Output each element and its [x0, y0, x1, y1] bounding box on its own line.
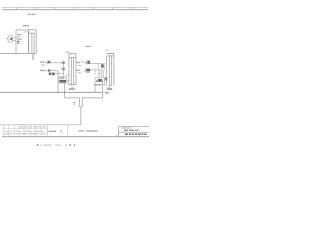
K1 glyph 2: [96, 80, 98, 82]
sheet border top line 1: [2, 6, 148, 8]
table header text cells: [19, 126, 46, 129]
U1 dark mark: [17, 41, 19, 43]
table faint line 2: [2, 130, 48, 132]
label RT1 value1: [74, 104, 76, 105]
caution cell left border: [47, 125, 49, 137]
CN2 pin text: [71, 86, 74, 89]
arrow row A: [45, 62, 47, 63]
transistor Q3 specks: [95, 71, 99, 75]
table text row 3: [5, 133, 46, 134]
CN2 label top: [66, 52, 70, 53]
CN1 pin stub 2: [33, 54, 35, 60]
label DL.PD: [23, 25, 29, 26]
wire Q4 leg 2: [100, 70, 102, 77]
wire Q2 to CN2: [67, 79, 69, 81]
footer registration mark left: [37, 144, 39, 146]
connector CN3: [107, 54, 114, 86]
label right col row1b: [82, 61, 84, 62]
sheet border top line 2: [2, 9, 148, 11]
wire Q4 leg 1: [98, 70, 100, 77]
wire vertical V2: [57, 71, 59, 93]
border tick marks: [17, 7, 132, 9]
wire X1 to U1 lower: [13, 39, 17, 41]
label row A: [40, 61, 44, 62]
title block top line: [119, 126, 149, 128]
Q2 dark body: [60, 80, 66, 83]
wire center drop: [80, 108, 82, 125]
CN3 label top: [105, 50, 109, 51]
wire D1 to bead column: [51, 62, 64, 64]
ground bus wire: [0, 91, 103, 93]
caution divider mark: [60, 130, 61, 132]
label row C: [40, 70, 44, 71]
regulator Q2 box: [59, 77, 67, 83]
wire Q1 to bead column: [55, 73, 64, 75]
footer digit 4: [66, 144, 67, 145]
label right col row4: [78, 72, 81, 73]
inductor L2: [62, 67, 65, 70]
CN3 label bottom: [107, 88, 112, 89]
label above bus end: [105, 92, 109, 94]
sheet name label: [28, 14, 37, 16]
connector CN2: [69, 54, 76, 85]
table dividers: [4, 125, 41, 137]
relay K1 box: [95, 78, 105, 85]
label right col row1: [76, 62, 80, 63]
diode D3: [85, 61, 90, 65]
transistor Q4 box: [98, 63, 104, 70]
label RT1: [73, 102, 75, 103]
caution text line1: [48, 131, 56, 132]
L1 dark center: [63, 62, 65, 64]
transistor Q1: [49, 73, 51, 76]
net label mid: [85, 46, 91, 47]
connector CN1: [29, 30, 37, 54]
junction V2 bus: [57, 92, 58, 93]
label right col row3: [76, 70, 80, 71]
table faint line 3: [2, 133, 48, 135]
crystal X1: [8, 36, 12, 42]
diode D4: [84, 68, 90, 72]
table top line: [0, 124, 81, 126]
lower wire left segment: [65, 97, 80, 99]
wire Q2 down through bus: [64, 83, 66, 98]
wire right drop: [102, 81, 104, 98]
junction Q2 bus: [64, 92, 65, 93]
U1 corner mark: [24, 31, 26, 32]
title block text row1: [124, 130, 138, 131]
label row B: [41, 65, 44, 66]
bottom tick: [115, 135, 117, 137]
fuse link pins: [80, 98, 83, 107]
sheet bottom line: [2, 136, 149, 138]
wire D3 to Q4: [90, 62, 101, 64]
diode D5: [105, 77, 107, 80]
title block left border: [118, 127, 120, 137]
K1 bottom dash 1: [95, 84, 97, 85]
X1 left dot: [7, 38, 8, 39]
CN1 pin stub 1: [31, 54, 33, 60]
CN2 label bottom: [69, 88, 75, 89]
Q2 top marks: [60, 77, 64, 78]
CN3 top cap: [107, 53, 114, 55]
wire K1 to bus: [94, 85, 96, 93]
note text part2: [86, 130, 98, 131]
diode D2: [48, 69, 51, 71]
wire X1 to U1 upper: [13, 37, 17, 39]
caution cell right border: [67, 125, 69, 137]
table faint line: [2, 128, 48, 130]
table text row 2: [5, 130, 44, 133]
L2 dark center: [63, 68, 65, 70]
footer dashes 1: [44, 144, 52, 147]
diode D1: [48, 60, 51, 65]
wire bead column vertical: [62, 60, 64, 77]
title block faint text: [122, 127, 132, 128]
pin number text: [66, 74, 70, 75]
Q4 dark core: [101, 64, 104, 67]
label row B dash: [45, 64, 46, 67]
note text part1: [78, 130, 84, 131]
X1 dark body: [10, 38, 12, 40]
footer registration mark right: [69, 144, 71, 146]
K1 dark glyph 1: [98, 79, 102, 82]
transistor Q1 right part: [52, 73, 55, 76]
wire Q4 leg 3: [102, 70, 104, 77]
footer mark end: [74, 144, 75, 145]
label right col row2: [78, 65, 81, 66]
inductor L1: [62, 61, 65, 64]
lower wire right segment: [82, 97, 102, 99]
wire left edge to U1 bottom: [0, 53, 36, 55]
CN2 top cap: [69, 53, 76, 55]
stub wire to Q4: [94, 68, 98, 70]
title block mid line: [119, 131, 149, 133]
wire D4 right: [90, 69, 95, 71]
IC U1 box: [16, 30, 28, 54]
footer digit 1: [40, 144, 43, 145]
CN3 pin text: [107, 86, 111, 89]
footer dashes 2: [55, 144, 61, 147]
K1 bottom dash 2: [98, 84, 100, 85]
wire D2 to V2: [51, 70, 58, 72]
arrow row C: [45, 70, 46, 71]
U1 pin text rows: [17, 34, 22, 44]
part number text: [125, 134, 147, 135]
